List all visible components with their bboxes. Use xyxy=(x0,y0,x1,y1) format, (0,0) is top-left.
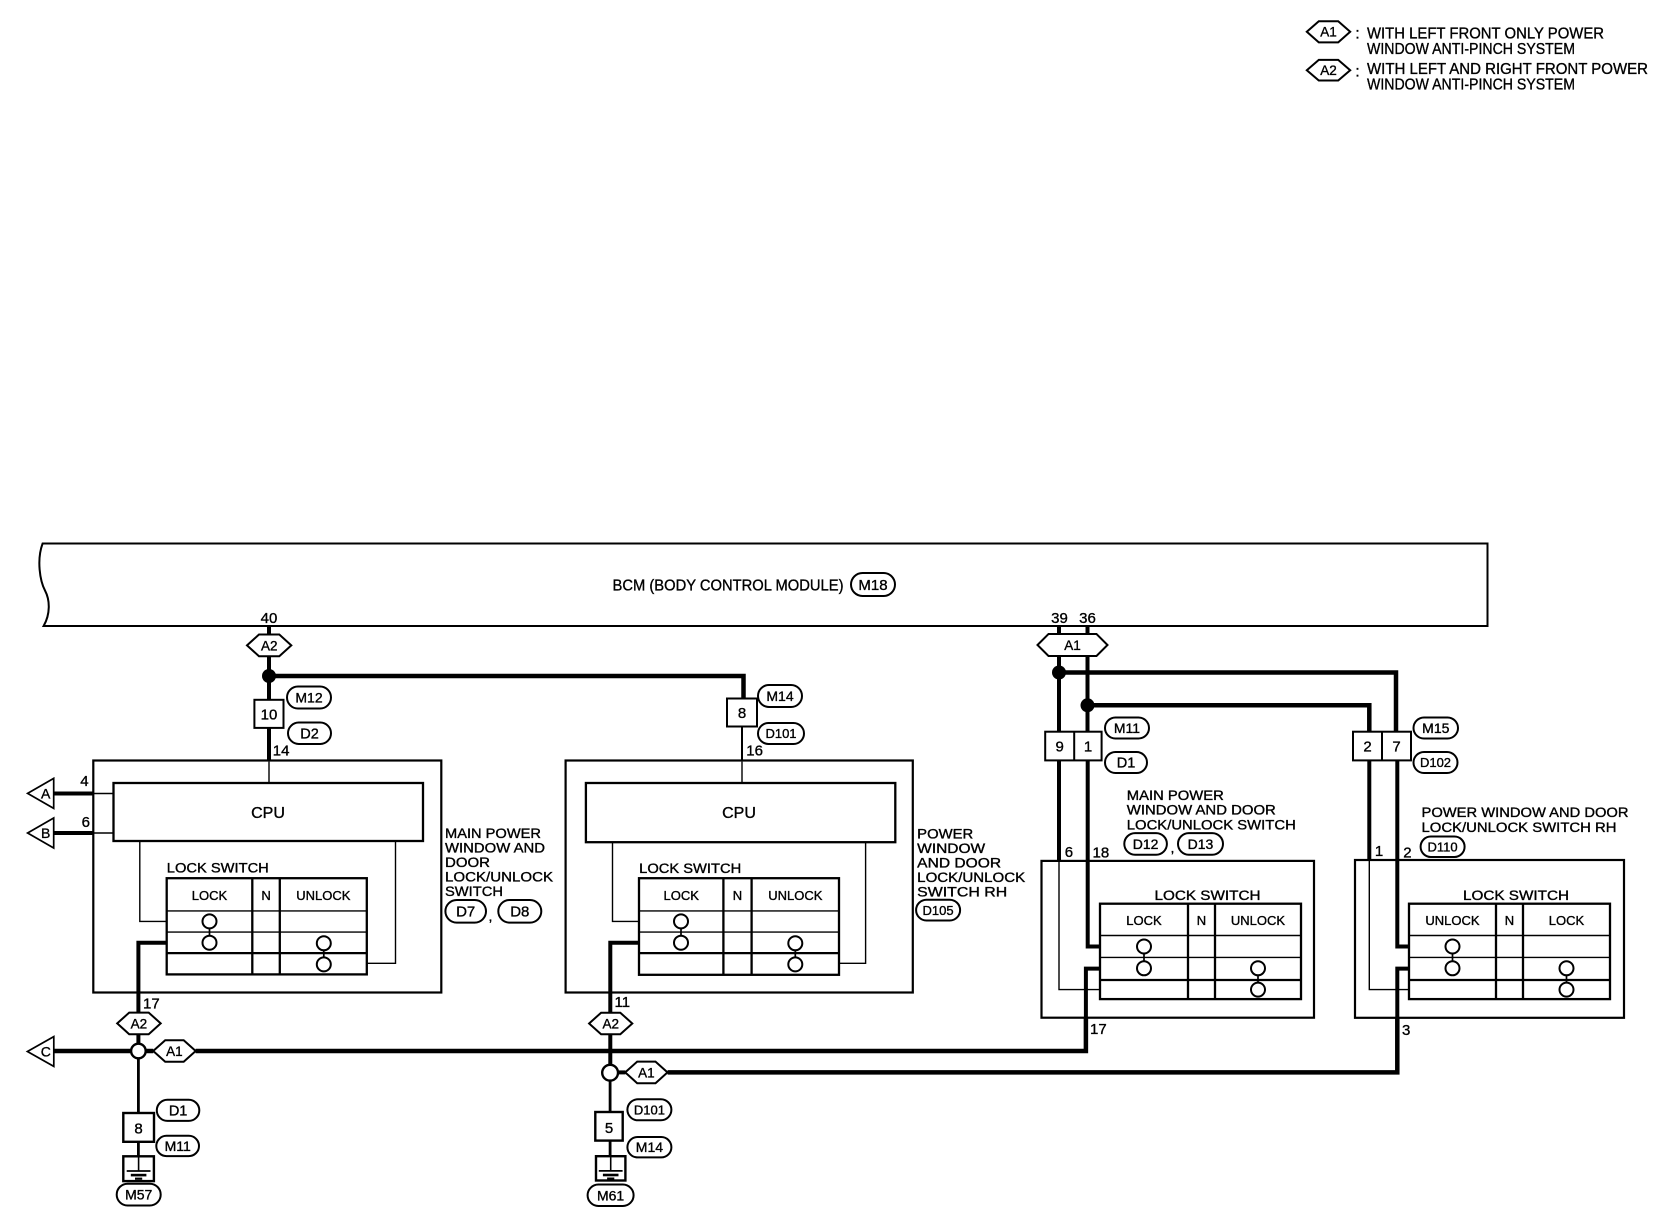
svg-text:B: B xyxy=(41,825,50,841)
svg-text:D13: D13 xyxy=(1188,836,1214,852)
svg-text:A1: A1 xyxy=(166,1044,183,1059)
svg-text:M57: M57 xyxy=(125,1187,152,1203)
svg-text:D7: D7 xyxy=(456,904,475,921)
svg-text:MAIN POWER: MAIN POWER xyxy=(445,826,541,841)
svg-text:3: 3 xyxy=(1402,1022,1410,1039)
svg-text:7: 7 xyxy=(1392,739,1400,756)
svg-text:5: 5 xyxy=(605,1120,613,1137)
svg-text:A2: A2 xyxy=(602,1016,619,1031)
svg-text:D2: D2 xyxy=(300,727,319,743)
svg-text:LOCK/UNLOCK: LOCK/UNLOCK xyxy=(917,870,1025,885)
svg-text:18: 18 xyxy=(1093,845,1110,862)
svg-text:WINDOW ANTI-PINCH SYSTEM: WINDOW ANTI-PINCH SYSTEM xyxy=(1367,77,1575,94)
svg-text:M61: M61 xyxy=(597,1187,624,1203)
svg-text:6: 6 xyxy=(1065,844,1073,861)
svg-text:A1: A1 xyxy=(638,1065,655,1080)
svg-text:M11: M11 xyxy=(1114,720,1140,736)
svg-text:A1: A1 xyxy=(1064,638,1081,653)
svg-text:MAIN POWER: MAIN POWER xyxy=(1127,788,1224,803)
svg-text:M12: M12 xyxy=(295,690,322,706)
svg-text:1: 1 xyxy=(1084,739,1092,756)
svg-text:A: A xyxy=(41,786,51,802)
svg-text:2: 2 xyxy=(1363,739,1371,756)
svg-text:N: N xyxy=(733,888,742,903)
svg-text:D101: D101 xyxy=(765,726,796,741)
svg-text:39: 39 xyxy=(1051,610,1068,627)
svg-text:17: 17 xyxy=(1090,1021,1107,1038)
svg-text:WITH LEFT FRONT ONLY POWER: WITH LEFT FRONT ONLY POWER xyxy=(1367,26,1604,43)
svg-text:UNLOCK: UNLOCK xyxy=(768,888,823,903)
svg-text:SWITCH: SWITCH xyxy=(445,884,503,899)
svg-text:SWITCH RH: SWITCH RH xyxy=(917,885,1007,900)
svg-text:POWER: POWER xyxy=(917,827,973,842)
svg-text:UNLOCK: UNLOCK xyxy=(296,888,351,903)
svg-text:LOCK/UNLOCK SWITCH: LOCK/UNLOCK SWITCH xyxy=(1127,818,1296,833)
svg-text:4: 4 xyxy=(80,773,88,790)
svg-text:11: 11 xyxy=(615,994,631,1011)
svg-text:LOCK SWITCH: LOCK SWITCH xyxy=(1155,888,1261,903)
svg-text:M14: M14 xyxy=(636,1139,663,1155)
svg-text:UNLOCK: UNLOCK xyxy=(1425,913,1480,928)
svg-text:10: 10 xyxy=(261,707,278,724)
svg-text:D1: D1 xyxy=(169,1104,188,1120)
svg-text:D102: D102 xyxy=(1420,755,1451,770)
svg-text:1: 1 xyxy=(1375,843,1383,860)
svg-text:A2: A2 xyxy=(1320,63,1337,78)
svg-text:WINDOW AND: WINDOW AND xyxy=(445,841,545,856)
svg-text:M11: M11 xyxy=(165,1138,191,1154)
svg-text:16: 16 xyxy=(746,743,763,760)
svg-text:AND DOOR: AND DOOR xyxy=(917,856,1001,871)
svg-text:,: , xyxy=(489,908,493,924)
svg-text:D110: D110 xyxy=(1428,839,1458,854)
svg-text:LOCK: LOCK xyxy=(1549,913,1585,928)
svg-text:LOCK SWITCH: LOCK SWITCH xyxy=(167,861,269,876)
svg-text:DOOR: DOOR xyxy=(445,855,490,870)
svg-text:D12: D12 xyxy=(1133,836,1159,852)
svg-text:POWER WINDOW AND DOOR: POWER WINDOW AND DOOR xyxy=(1422,805,1629,820)
svg-text:14: 14 xyxy=(273,743,290,760)
svg-text:LOCK SWITCH: LOCK SWITCH xyxy=(1463,888,1569,903)
svg-text:N: N xyxy=(1197,913,1206,928)
svg-text:40: 40 xyxy=(261,610,278,627)
svg-text:A2: A2 xyxy=(261,638,278,653)
svg-text:M14: M14 xyxy=(766,688,793,704)
svg-text:WITH LEFT AND RIGHT FRONT POWE: WITH LEFT AND RIGHT FRONT POWER xyxy=(1367,61,1648,78)
svg-text:LOCK: LOCK xyxy=(192,888,228,903)
svg-text:M15: M15 xyxy=(1422,720,1449,736)
svg-text:LOCK/UNLOCK: LOCK/UNLOCK xyxy=(445,870,553,885)
svg-text:WINDOW ANTI-PINCH SYSTEM: WINDOW ANTI-PINCH SYSTEM xyxy=(1367,41,1575,58)
svg-text:M18: M18 xyxy=(858,577,887,594)
svg-text::: : xyxy=(1355,64,1359,81)
svg-text:6: 6 xyxy=(82,814,90,831)
svg-text:8: 8 xyxy=(134,1121,142,1138)
svg-text:D101: D101 xyxy=(634,1103,665,1118)
svg-text:D105: D105 xyxy=(923,903,954,918)
svg-text:UNLOCK: UNLOCK xyxy=(1231,913,1286,928)
svg-text:D1: D1 xyxy=(1117,756,1136,772)
svg-text:17: 17 xyxy=(143,996,160,1013)
svg-text:,: , xyxy=(1171,840,1175,856)
svg-text:D8: D8 xyxy=(510,904,529,921)
svg-text:LOCK/UNLOCK SWITCH RH: LOCK/UNLOCK SWITCH RH xyxy=(1422,820,1617,835)
svg-text::: : xyxy=(1355,26,1359,43)
svg-text:C: C xyxy=(41,1044,51,1060)
svg-text:A1: A1 xyxy=(1320,25,1337,40)
svg-text:WINDOW: WINDOW xyxy=(917,841,985,856)
svg-text:36: 36 xyxy=(1079,610,1096,627)
svg-text:LOCK: LOCK xyxy=(663,888,699,903)
svg-text:N: N xyxy=(1505,913,1514,928)
svg-text:BCM (BODY CONTROL MODULE): BCM (BODY CONTROL MODULE) xyxy=(613,578,844,595)
svg-text:8: 8 xyxy=(738,705,746,722)
svg-text:LOCK SWITCH: LOCK SWITCH xyxy=(639,861,741,876)
svg-text:A2: A2 xyxy=(131,1016,148,1031)
svg-text:N: N xyxy=(261,888,270,903)
svg-text:CPU: CPU xyxy=(251,805,285,822)
svg-text:LOCK: LOCK xyxy=(1126,913,1162,928)
svg-text:WINDOW AND DOOR: WINDOW AND DOOR xyxy=(1127,803,1276,818)
svg-text:9: 9 xyxy=(1056,739,1064,756)
svg-text:CPU: CPU xyxy=(722,805,756,822)
